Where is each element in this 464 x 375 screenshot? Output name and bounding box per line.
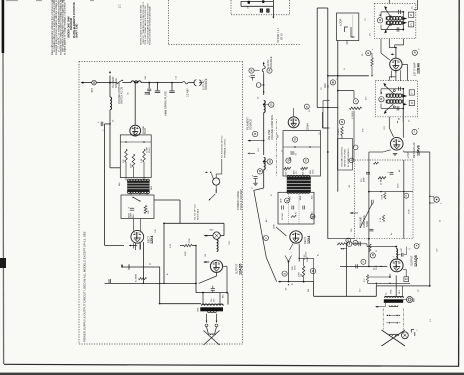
svg-text:B: B xyxy=(379,19,381,22)
svg-text:IN: IN xyxy=(327,85,330,88)
svg-text:2.2K: 2.2K xyxy=(141,158,143,163)
svg-text:PLUG & SOCKET: PLUG & SOCKET xyxy=(239,189,243,210)
svg-text:BRN: BRN xyxy=(300,195,302,200)
svg-text:B- MOM: B- MOM xyxy=(136,274,138,282)
svg-text:500K: 500K xyxy=(365,221,369,227)
svg-text:LOOP: LOOP xyxy=(339,18,343,26)
svg-text:30K 1W: 30K 1W xyxy=(302,168,304,175)
svg-text:AMM SPARK PLATE: AMM SPARK PLATE xyxy=(163,91,167,116)
svg-text:BLK: BLK xyxy=(119,182,121,186)
svg-text:12BA6: 12BA6 xyxy=(417,63,421,74)
svg-text:47K: 47K xyxy=(123,159,125,163)
svg-text:B-: B- xyxy=(167,273,169,275)
svg-text:6.3V: 6.3V xyxy=(295,211,297,216)
svg-text:SOURCE: SOURCE xyxy=(116,78,118,88)
svg-text:1W: 1W xyxy=(349,185,351,188)
svg-text:G: G xyxy=(265,238,267,240)
svg-text:2200: 2200 xyxy=(313,170,315,174)
svg-text:3.3 MEG: 3.3 MEG xyxy=(352,111,354,119)
svg-text:35W4: 35W4 xyxy=(307,123,310,130)
svg-text:-8V: -8V xyxy=(286,287,288,291)
svg-text:TERMINAL 1 OF K2: TERMINAL 1 OF K2 xyxy=(223,138,226,158)
svg-text:500K: 500K xyxy=(382,194,384,199)
svg-text:12X4: 12X4 xyxy=(150,236,154,244)
svg-text:BLK: BLK xyxy=(133,213,135,218)
svg-text:B: B xyxy=(381,98,383,101)
svg-text:+75V: +75V xyxy=(406,152,410,158)
svg-text:330K: 330K xyxy=(189,238,191,243)
svg-text:220K: 220K xyxy=(131,163,133,168)
svg-text:12X4: 12X4 xyxy=(307,236,311,244)
svg-text:50K 1W: 50K 1W xyxy=(286,168,288,175)
svg-text:+125V: +125V xyxy=(306,251,308,258)
svg-text:N: N xyxy=(411,101,413,105)
svg-text:(-): (-) xyxy=(393,256,395,258)
svg-text:OF V3: OF V3 xyxy=(282,33,284,40)
svg-text:SW: SW xyxy=(278,135,280,138)
svg-text:220K: 220K xyxy=(185,251,187,256)
svg-text:VOLUME CONTROL: VOLUME CONTROL xyxy=(341,146,343,167)
svg-text:(-): (-) xyxy=(409,248,411,250)
svg-text:B: B xyxy=(254,133,256,136)
svg-text:M: M xyxy=(332,81,334,84)
svg-text:GRN: GRN xyxy=(198,307,200,312)
svg-text:TAP AT 50K USED: TAP AT 50K USED xyxy=(344,149,347,167)
svg-text:BRN: BRN xyxy=(414,297,416,302)
svg-text:SHOWN: SHOWN xyxy=(143,125,145,134)
svg-text:as signal applied for voltage: as signal applied for voltage readings o… xyxy=(64,1,67,55)
svg-text:10 MEG: 10 MEG xyxy=(380,177,382,185)
svg-text:SW: SW xyxy=(145,76,147,79)
svg-text:POWER SUPPLY & OUTPUT CIRCUIT: POWER SUPPLY & OUTPUT CIRCUIT USED IN AL… xyxy=(83,231,87,342)
svg-text:M: M xyxy=(312,216,314,218)
svg-text:117VAC: 117VAC xyxy=(281,212,284,220)
svg-text:2W: 2W xyxy=(308,289,310,292)
svg-text:FILAMENT: FILAMENT xyxy=(112,76,115,88)
svg-text:TO PINS 1 & 7: TO PINS 1 & 7 xyxy=(278,27,280,43)
svg-text:SWITCH AC ON: SWITCH AC ON xyxy=(120,87,123,104)
svg-text:C: C xyxy=(410,22,412,26)
svg-text:1/2 AMP: 1/2 AMP xyxy=(187,88,190,97)
svg-text:TO JCT OF C20: TO JCT OF C20 xyxy=(194,204,196,220)
svg-text:B: B xyxy=(251,69,253,72)
svg-text:500K: 500K xyxy=(376,265,378,270)
svg-text:RED: RED xyxy=(151,185,153,190)
svg-text:4.7K: 4.7K xyxy=(380,217,382,222)
svg-text:#47: #47 xyxy=(90,88,94,93)
svg-text:12AQ5: 12AQ5 xyxy=(239,264,243,275)
svg-text:RED & BLK: RED & BLK xyxy=(198,208,200,220)
svg-text:BLU: BLU xyxy=(223,294,225,298)
svg-text:GRN: GRN xyxy=(281,198,283,203)
svg-text:.05: .05 xyxy=(296,171,298,174)
svg-text:SOURCE: SOURCE xyxy=(269,56,273,68)
svg-text:6.3V: 6.3V xyxy=(170,243,172,248)
svg-text:RED: RED xyxy=(390,289,392,294)
svg-text:12: 12 xyxy=(405,277,409,281)
svg-text:150 V: 150 V xyxy=(149,147,151,153)
svg-text:SHAFT END: SHAFT END xyxy=(76,24,79,39)
svg-text:SOURCE: SOURCE xyxy=(204,78,208,90)
svg-text:VOLUME CONTROL: VOLUME CONTROL xyxy=(270,114,274,140)
svg-text:MMF: MMF xyxy=(364,177,366,182)
svg-text:470K: 470K xyxy=(409,209,411,214)
svg-text:SOURCE: SOURCE xyxy=(248,119,252,130)
svg-text:N: N xyxy=(341,121,343,124)
svg-text:40K: 40K xyxy=(148,210,150,214)
svg-text:FOUND ON EACH CHASSIS AS MADE: FOUND ON EACH CHASSIS AS MADE xyxy=(149,6,152,45)
svg-text:BLU: BLU xyxy=(399,289,401,293)
svg-text:IN SOME MODELS: IN SOME MODELS xyxy=(348,148,350,167)
svg-text:E: E xyxy=(410,13,412,17)
svg-text:TO JUNCTION OF R22: TO JUNCTION OF R22 xyxy=(221,135,223,158)
svg-text:12AV6: 12AV6 xyxy=(416,145,420,156)
svg-text:LINE: LINE xyxy=(273,224,275,229)
svg-text:R: R xyxy=(269,69,271,72)
svg-text:G: G xyxy=(367,53,369,55)
svg-text:1W: 1W xyxy=(205,254,207,257)
svg-text:1 MEG: 1 MEG xyxy=(338,128,340,135)
svg-text:RED: RED xyxy=(289,195,291,200)
svg-text:12AQ5: 12AQ5 xyxy=(414,255,418,267)
svg-text:.047: .047 xyxy=(401,248,403,252)
